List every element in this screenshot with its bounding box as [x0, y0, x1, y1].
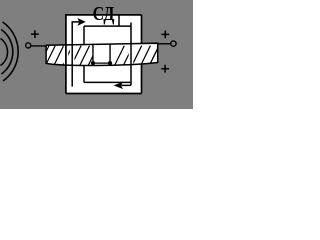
junction dot left [91, 61, 95, 65]
junction dot right [108, 61, 112, 65]
plus sign right bottom [161, 65, 169, 73]
wire between junction dots [93, 62, 110, 64]
wire left terminal to plate [31, 45, 47, 47]
plus sign left terminal [31, 30, 39, 38]
outer loop rectangle (left, top, bottom sides) [66, 15, 142, 94]
sound wave arc middle [1, 30, 13, 75]
inner loop left side (under plate) [83, 26, 85, 82]
inner loop bottom edge [84, 81, 131, 83]
white clearance for wires crossing plate [66, 45, 131, 64]
white window in plate (electrode gap) [93, 44, 110, 64]
second loop top wire with arrow [72, 21, 80, 23]
current arrow right [78, 19, 85, 25]
circuit schematic: piezo plate with LED (СД) [0, 0, 193, 109]
sound wave arc outer [3, 22, 19, 81]
svg-text:СД: СД [93, 2, 115, 24]
current arrow left (on second loop bottom wire) [115, 83, 122, 89]
inner loop right side [121, 23, 131, 86]
second loop left side [71, 22, 73, 87]
terminal circle left [26, 43, 31, 48]
electrode window left edge [92, 44, 94, 63]
sound wave arc inner [1, 39, 8, 66]
electrode window right edge [109, 44, 111, 63]
hatching of plate [36, 44, 168, 67]
inner loop top edge [84, 25, 131, 27]
jumper wire from outer loop top to inner loop top [118, 15, 120, 26]
plate border [46, 43, 158, 65]
terminal circle right [171, 41, 176, 46]
plus sign right top [161, 31, 169, 39]
piezo plate body [46, 43, 158, 65]
outer loop rectangle (right side under plate) [141, 15, 143, 94]
white interior of loop area [66, 15, 142, 94]
wire right terminal to plate [156, 43, 171, 45]
